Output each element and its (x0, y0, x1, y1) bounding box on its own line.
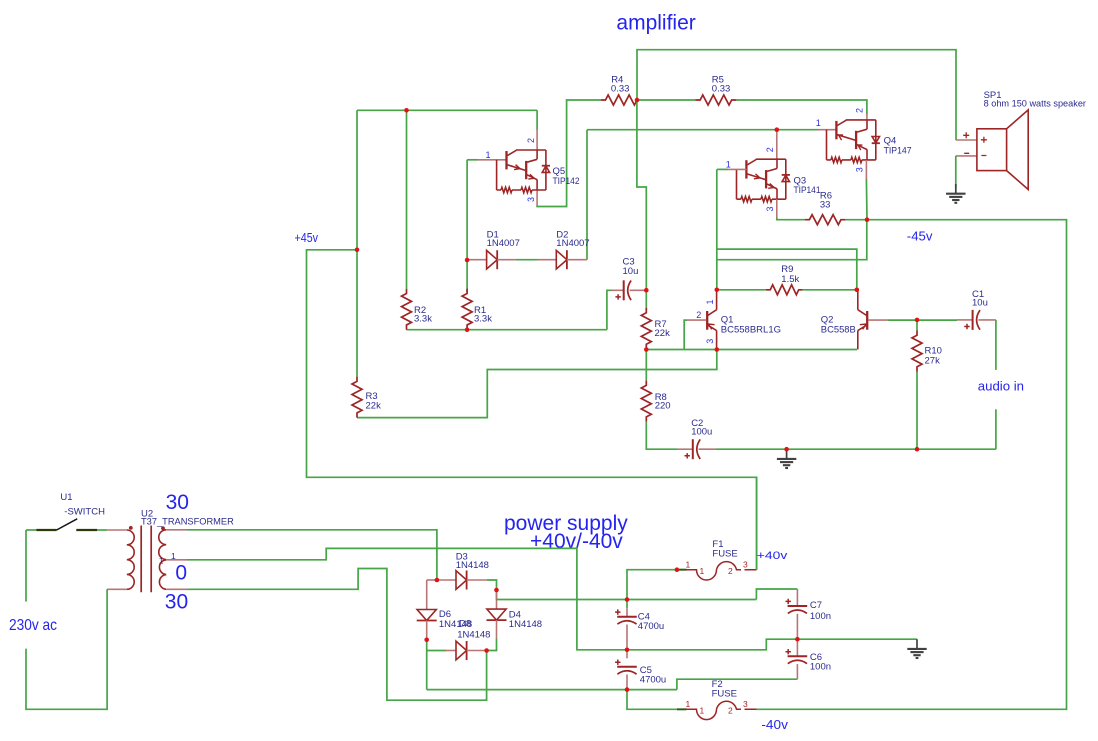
wire R4 to R5 (637, 99, 695, 101)
Q3 pin1 lead (727, 168, 746, 170)
wire Q4 emitter down (865, 179, 868, 220)
D3 anode lead (437, 579, 456, 581)
ground (power supply) (907, 639, 926, 658)
svg-text:1: 1 (700, 566, 705, 576)
wire D4 to bottom node (487, 639, 497, 651)
svg-text:3: 3 (765, 206, 775, 211)
svg-text:2: 2 (728, 566, 733, 576)
svg-text:100u: 100u (691, 427, 712, 438)
D1 cathode lead (497, 259, 515, 261)
wire secondary top to bridge (187, 530, 437, 580)
junction R2 top (404, 108, 409, 113)
D4 anode lead (496, 593, 498, 610)
C1 right lead (978, 319, 996, 321)
D1 anode lead (469, 259, 487, 261)
C7 bottom lead (796, 614, 798, 639)
svg-text:1N4007: 1N4007 (487, 238, 520, 249)
D2 anode lead (538, 259, 557, 261)
svg-text:2: 2 (765, 147, 775, 152)
wire -40 rail (427, 689, 677, 691)
wire R10 bottom (916, 372, 918, 450)
wire x357 down to R3 (356, 110, 358, 376)
wire output to speaker + (637, 50, 956, 140)
fuse F1 (686, 562, 757, 580)
wire +45 rail to Q5 collector (357, 109, 537, 111)
wire R7 junction down to R8 (645, 350, 647, 381)
C6 top lead (796, 639, 798, 656)
F2 pin1 overlap (677, 708, 687, 710)
resistor R9 (766, 285, 803, 295)
svg-text:22k: 22k (655, 328, 671, 339)
svg-text:230v ac: 230v ac (9, 617, 57, 634)
wire Q3 emitter to R6 (777, 218, 805, 220)
svg-text:2: 2 (696, 310, 701, 320)
D6 top wire (427, 579, 437, 581)
resistor R7 (641, 308, 651, 349)
D2 cathode lead (567, 259, 587, 261)
wire bridge - down (426, 640, 428, 690)
C3 left lead (612, 289, 624, 291)
wire R7 top (645, 290, 647, 309)
svg-text:FUSE: FUSE (712, 548, 737, 559)
svg-text:3.3k: 3.3k (414, 313, 432, 324)
svg-text:3: 3 (705, 339, 715, 344)
svg-text:+40v: +40v (757, 550, 788, 562)
Q4 pin3 lead (865, 160, 867, 179)
Q1 pin2 lead (687, 319, 706, 321)
switch U1 (36, 529, 97, 531)
wire D2 cathode up to base rail (586, 130, 588, 260)
resistor R3 (352, 377, 362, 418)
secondary bottom lead (166, 588, 187, 590)
junction +45 branch (355, 248, 360, 253)
wire Q5 base / D1 / R1 (466, 160, 468, 292)
C4 bottom lead (626, 625, 628, 650)
wire R1 R2 bottom rail (407, 329, 607, 331)
svg-text:0.33: 0.33 (712, 84, 731, 95)
resistor R4 (601, 95, 637, 105)
D3 cathode lead (467, 579, 487, 581)
C1 left lead (957, 319, 973, 321)
svg-text:FUSE: FUSE (712, 689, 737, 700)
C3 right lead (630, 289, 647, 291)
svg-text:3: 3 (855, 167, 865, 172)
svg-text:2: 2 (855, 108, 865, 113)
svg-text:3: 3 (743, 559, 748, 569)
junction ground (784, 447, 789, 452)
wire +40 rail to C7 (756, 589, 797, 600)
wire D8 anode (427, 650, 446, 652)
junction C4/C5 centre (625, 648, 630, 653)
C6 bottom lead (796, 664, 798, 679)
wire SP1 - to ground (955, 156, 957, 189)
wire audio in top (995, 320, 997, 370)
wire R6 to -45 node (846, 219, 867, 221)
Q3 pin2 lead (776, 130, 778, 160)
svg-text:3.3k: 3.3k (474, 313, 492, 324)
junction R7 bottom (644, 347, 649, 352)
junction R10 top (915, 318, 920, 323)
wire ground rail (716, 448, 996, 450)
svg-text:1.5k: 1.5k (781, 274, 799, 285)
svg-text:3: 3 (743, 699, 748, 709)
junction R4/R5 output node (635, 98, 640, 103)
svg-text:220: 220 (655, 401, 671, 412)
wire Q1 base down to rail (684, 320, 687, 349)
svg-text:27k: 27k (925, 356, 941, 367)
Q5 pin3 lead (536, 190, 538, 206)
svg-text:+45v: +45v (295, 230, 319, 245)
wire R7 bottom stub (645, 348, 647, 350)
wire R9 left (717, 289, 766, 291)
junction bridge + output (494, 588, 499, 593)
svg-text:1N4007: 1N4007 (556, 238, 589, 249)
wire R10 top stub (916, 320, 918, 331)
resistor R2 (402, 289, 412, 330)
wire centre tap 0V rail (187, 548, 917, 649)
D4 cathode lead (496, 620, 498, 638)
wire to C3 left (607, 290, 612, 329)
svg-text:10u: 10u (972, 298, 988, 309)
wire C4 top stub (626, 600, 628, 609)
C5 bottom lead (626, 675, 628, 690)
svg-text:4700u: 4700u (638, 621, 664, 632)
svg-text:30: 30 (165, 591, 188, 614)
Q5 pin2 lead (536, 130, 538, 151)
wire output node down to C3/R7 (637, 100, 646, 290)
junction R1 bottom (465, 327, 470, 332)
wire R5 to Q4 collector (736, 100, 867, 115)
junction C6/C7 centre (795, 637, 800, 642)
wire emitter rail Q1 Q2 (646, 349, 857, 351)
ground (amplifier) (777, 449, 796, 468)
wire Q2 base to C1 (888, 319, 957, 321)
svg-text:33: 33 (820, 199, 831, 210)
svg-text:U1: U1 (60, 492, 72, 503)
junction bridge AC top (435, 578, 440, 583)
svg-text:amplifier: amplifier (616, 12, 695, 35)
svg-text:-40v: -40v (761, 718, 788, 732)
diode D2 (556, 250, 567, 269)
Q5 pin1 lead (477, 159, 507, 161)
svg-text:1: 1 (726, 160, 731, 170)
wire 230v left top (25, 530, 27, 602)
wire Q5 emitter to R4 (537, 100, 601, 207)
transformer primary bottom lead (107, 588, 127, 590)
svg-text:8 ohm 150 watts speaker: 8 ohm 150 watts speaker (984, 99, 1086, 110)
junction R9 right / Q2 collector (855, 288, 860, 293)
resistor R1 (462, 289, 472, 330)
capacitor C6 (788, 655, 808, 657)
junction C5 bottom (625, 687, 630, 692)
wire Q5 pin1 (467, 159, 478, 161)
wire Q5 collector (536, 110, 538, 130)
wire Q3 base down to R9 left (716, 169, 718, 289)
svg-text:D8: D8 (459, 619, 471, 630)
junction R6 / Q4 emitter / -45 rail (865, 217, 870, 222)
svg-text:audio in: audio in (978, 378, 1024, 393)
junction R10 bottom (915, 447, 920, 452)
svg-text:1: 1 (159, 555, 164, 565)
svg-text:1: 1 (686, 559, 691, 569)
D6 anode lead (426, 580, 428, 610)
wire Q3 base (717, 168, 728, 170)
diode D6 (417, 610, 436, 621)
svg-text:TIP142: TIP142 (553, 176, 580, 187)
wire +40 rail (497, 599, 757, 601)
C2 left lead (677, 448, 693, 450)
svg-text:100n: 100n (810, 611, 831, 622)
wire D1 to D2 (516, 259, 538, 261)
C5 top lead (626, 650, 628, 659)
svg-text:TIP141: TIP141 (794, 185, 821, 196)
wire D3 to + node (487, 580, 497, 600)
D8 anode lead (446, 650, 456, 652)
F1 pin1 overlap (677, 569, 687, 571)
diode D4 (487, 609, 506, 620)
svg-text:1N4148: 1N4148 (456, 560, 489, 571)
junction C3 / R7 (644, 288, 649, 293)
svg-text:0.33: 0.33 (611, 84, 630, 95)
D8 cathode lead (467, 650, 487, 652)
transistor Q3 (737, 159, 790, 202)
C4 top lead (626, 608, 628, 617)
svg-text:1: 1 (700, 706, 705, 716)
diode D3 (456, 571, 467, 590)
wire C4 top to F1 (627, 570, 687, 600)
svg-text:2: 2 (526, 138, 536, 143)
capacitor C2 (692, 439, 694, 459)
Q4 pin1 lead (818, 129, 836, 131)
Q4 pin2 lead (866, 114, 868, 120)
junction C4 top (625, 597, 630, 602)
capacitor C1 (972, 310, 974, 330)
svg-text:TIP147: TIP147 (884, 145, 912, 156)
svg-text:1: 1 (686, 699, 691, 709)
wire to F2 (627, 690, 687, 710)
transformer U2 (127, 526, 166, 593)
wire feedback to R3 (357, 350, 717, 418)
D6 cathode lead (426, 621, 428, 640)
svg-text:C7: C7 (810, 600, 822, 611)
svg-text:1N4148: 1N4148 (509, 619, 542, 630)
SP1 - lead (956, 155, 977, 157)
svg-text:4700u: 4700u (640, 675, 666, 686)
svg-text:100n: 100n (810, 662, 831, 673)
diode D8 (456, 641, 467, 660)
capacitor C3 (623, 280, 625, 300)
svg-text:2: 2 (728, 706, 733, 716)
svg-text:-45v: -45v (907, 228, 933, 243)
secondary centre tap lead (166, 559, 187, 561)
svg-text:1: 1 (486, 150, 491, 160)
Q3 pin3 lead (776, 199, 778, 217)
wire 230v to switch (26, 529, 36, 531)
svg-text:BC558BRL1G: BC558BRL1G (721, 325, 781, 336)
capacitor C4 (617, 616, 637, 618)
svg-text:1: 1 (705, 299, 715, 304)
C2 right lead (699, 448, 716, 450)
junction Q1 emitter (715, 347, 720, 352)
transistor Q1 (707, 290, 716, 350)
wire driver base rail (587, 129, 818, 131)
wire switch to transformer (97, 529, 107, 531)
resistor R6 (805, 215, 846, 225)
wire 230v left bottom loop (26, 589, 107, 709)
svg-text:30: 30 (166, 491, 189, 514)
capacitor C5 (617, 666, 637, 668)
resistor R10 (912, 331, 922, 372)
svg-text:1: 1 (816, 118, 821, 128)
Q2 pin2 lead (868, 319, 888, 321)
transistor Q2 (858, 290, 867, 350)
junction D1 anode (465, 258, 470, 263)
C7 top lead (796, 589, 798, 606)
transistor Q5 (497, 150, 550, 193)
transistor Q4 (827, 120, 880, 163)
secondary top lead (166, 529, 187, 531)
wire -40 rail to C6 (677, 679, 798, 689)
wire cross link B (717, 220, 867, 260)
svg-text:BC558B: BC558B (821, 324, 856, 335)
svg-text:3: 3 (526, 197, 536, 202)
SP1 + lead (956, 139, 977, 141)
resistor R5 (695, 95, 736, 105)
transformer primary top lead (107, 529, 127, 531)
capacitor C7 (788, 605, 808, 607)
junction F1 input (675, 567, 680, 572)
wire R9 right (803, 289, 857, 291)
svg-text:-SWITCH: -SWITCH (64, 507, 105, 518)
resistor R8 (641, 381, 651, 422)
wire R2 top lead (406, 110, 408, 288)
svg-text:22k: 22k (366, 400, 382, 411)
wire R8 bottom to C2 (646, 422, 677, 450)
diode D1 (487, 250, 498, 269)
wire F1 output up (+45 feed) (756, 477, 758, 569)
fuse F2 (686, 701, 757, 719)
junction Q3 collector (775, 127, 780, 132)
junction R9 left / Q1 collector (715, 288, 720, 293)
wire -45v rail to F2 (757, 220, 1067, 710)
svg-text:10u: 10u (623, 266, 639, 277)
svg-text:0: 0 (175, 561, 187, 584)
ground (speaker) (946, 184, 965, 203)
junction bridge AC bottom (484, 648, 489, 653)
wire audio in bottom (995, 409, 997, 449)
junction bridge - output (424, 638, 429, 643)
svg-text:1N4148: 1N4148 (457, 629, 490, 640)
svg-text:T37_TRANSFORMER: T37_TRANSFORMER (141, 516, 234, 527)
wire secondary bottom to bridge (187, 569, 487, 701)
speaker SP1 (963, 110, 1028, 190)
wire cross link A (717, 249, 857, 290)
wire +45v feed from F1 (307, 250, 757, 570)
